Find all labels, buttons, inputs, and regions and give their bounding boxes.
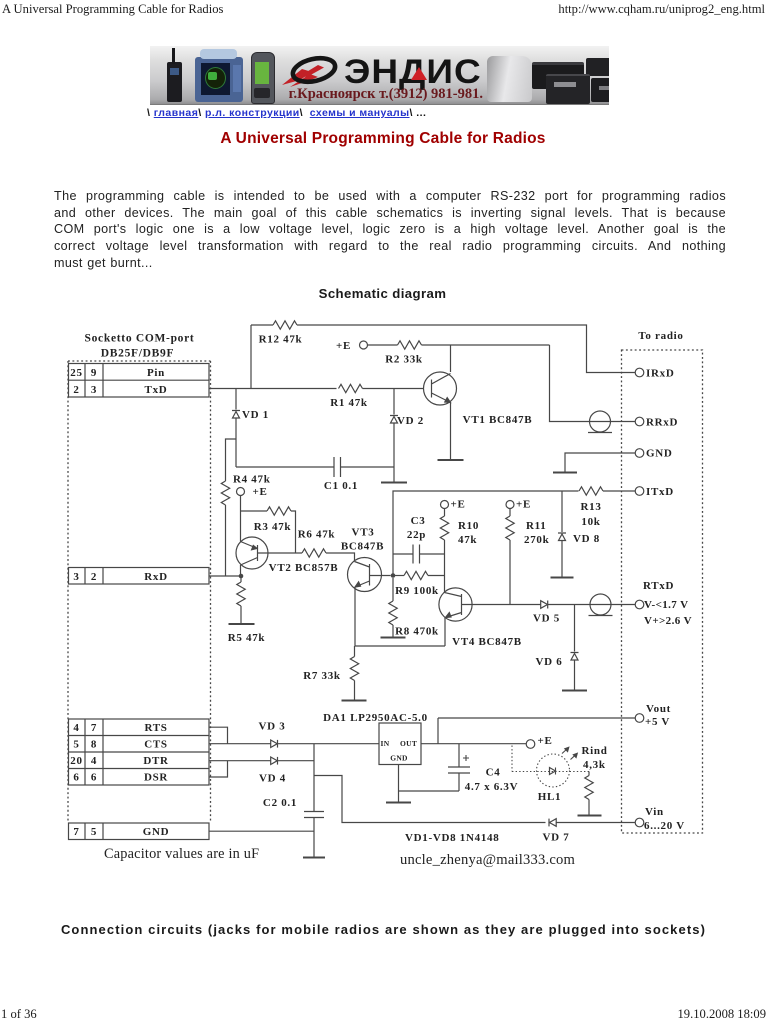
wire VT4 collector (473, 604, 541, 606)
LED HL1 dashed circle (537, 754, 570, 787)
svg-text:25: 25 (70, 367, 82, 379)
wire R5 to ground (240, 606, 242, 624)
svg-text:VT1 BC847B: VT1 BC847B (463, 414, 533, 426)
banner logo ellipse (280, 54, 342, 90)
svg-text:IRxD: IRxD (646, 368, 674, 380)
svg-text:5: 5 (73, 739, 79, 751)
svg-text:Rind: Rind (582, 745, 608, 757)
svg-text:10k: 10k (581, 516, 600, 528)
svg-text:R6 47k: R6 47k (298, 529, 336, 541)
svg-text:R12 47k: R12 47k (259, 334, 303, 346)
resistor R6 (302, 549, 326, 557)
jack RRxD (588, 411, 612, 433)
svg-text:C2 0.1: C2 0.1 (263, 797, 297, 809)
resistor R3 (267, 507, 291, 515)
svg-text:7: 7 (73, 826, 79, 838)
svg-text:IN: IN (381, 739, 390, 748)
capacitor C4 (399, 744, 471, 791)
footer date (677, 1007, 766, 1022)
svg-text:R8 470k: R8 470k (395, 626, 439, 638)
diode VD1 (232, 389, 240, 440)
svg-text:+E: +E (451, 499, 466, 511)
svg-text:+E: +E (516, 499, 531, 511)
wire +E to R2 (368, 344, 398, 346)
pin RRxD (635, 417, 644, 426)
diode VD8 (558, 491, 566, 577)
ground GND pin (553, 472, 577, 474)
svg-text:6: 6 (91, 772, 97, 784)
banner phone line (288, 86, 483, 103)
page header right url (558, 2, 765, 17)
transistor VT1 (424, 372, 457, 405)
wire node to R5 (240, 576, 242, 582)
svg-text:6...20 V: 6...20 V (644, 820, 685, 832)
wire VD7 to Vin pin (556, 822, 635, 824)
ground DA1 (386, 802, 411, 804)
pin IRxD (635, 368, 644, 377)
svg-text:+E: +E (253, 486, 268, 498)
svg-text:47k: 47k (458, 534, 477, 546)
wire R3 to base line (291, 511, 296, 553)
LED HL1 arrows (562, 747, 577, 759)
svg-text:4: 4 (73, 722, 79, 734)
wire TxD from connector (209, 388, 337, 390)
banner logo red triangle in Д (411, 67, 427, 80)
wire RTS bracket to CTS (209, 727, 228, 744)
svg-text:R3 47k: R3 47k (254, 521, 292, 533)
wire VT4 emitter down (444, 618, 446, 647)
svg-text:4: 4 (91, 755, 97, 767)
svg-text:2: 2 (91, 571, 97, 583)
table Pin/TxD rows (69, 364, 210, 398)
banner big logo text (344, 53, 484, 92)
wire VT3 emitter down (354, 587, 356, 646)
banner radar device (195, 57, 243, 102)
regulator DA1 box (379, 723, 421, 765)
wire junction branch to Vin (314, 776, 546, 823)
svg-text:C1 0.1: C1 0.1 (324, 480, 358, 492)
diode VD4 (271, 757, 278, 765)
banner ups tower (487, 56, 532, 102)
svg-text:9: 9 (91, 367, 97, 379)
resistor R2 (398, 341, 422, 349)
COM connector dotted boundary (68, 361, 211, 823)
svg-text:RRxD: RRxD (646, 417, 678, 429)
diode VD5 (541, 601, 635, 609)
svg-text:Vout: Vout (646, 703, 671, 715)
wire DSR bracket to DTR (209, 761, 228, 777)
pin ITxD (635, 487, 644, 496)
wire +E branch to R3 (241, 510, 268, 512)
svg-text:HL1: HL1 (538, 791, 562, 803)
jack RTxD (589, 594, 613, 616)
bottom caption (0, 922, 767, 937)
wire VT1 emitter to ground (450, 403, 452, 460)
transistor VT4 (439, 588, 473, 621)
wire VD1 to C1 (236, 439, 334, 467)
svg-text:R1 47k: R1 47k (330, 397, 368, 409)
SVG PART2 (209, 487, 635, 701)
svg-text:GND: GND (143, 826, 170, 838)
diode VD2 (390, 389, 398, 468)
svg-text:RTxD: RTxD (643, 580, 674, 592)
banner (150, 46, 609, 105)
svg-text:C3: C3 (411, 515, 426, 527)
supply circle +E at R10 (441, 501, 449, 509)
svg-text:R10: R10 (458, 520, 479, 532)
footer page number (1, 1007, 37, 1022)
svg-text:VD 7: VD 7 (543, 832, 570, 844)
capacitor C1 (334, 457, 341, 477)
dotted wire to HL1 (512, 746, 589, 776)
svg-text:20: 20 (70, 755, 82, 767)
svg-text:VD1-VD8 1N4148: VD1-VD8 1N4148 (405, 832, 499, 844)
supply circle +E at R11 (506, 501, 514, 509)
svg-text:R4 47k: R4 47k (233, 474, 271, 486)
svg-text:BC847B: BC847B (341, 541, 384, 553)
wire GND row to C2 leg (209, 830, 314, 832)
svg-text:R13: R13 (580, 501, 601, 513)
svg-text:22p: 22p (407, 529, 426, 541)
svg-text:DSR: DSR (144, 772, 168, 784)
svg-text:CTS: CTS (144, 739, 168, 751)
nav links line (147, 107, 426, 119)
wire VD3 to DA1 IN (278, 743, 380, 745)
svg-text:V-<1.7 V: V-<1.7 V (644, 599, 689, 611)
svg-text:7: 7 (91, 722, 97, 734)
svg-text:VD 1: VD 1 (242, 409, 269, 421)
wire C1 to VD2 leg (341, 466, 395, 468)
wire R12 rail to IRxD (251, 325, 635, 373)
svg-text:2: 2 (73, 384, 79, 396)
pin GND (635, 449, 644, 458)
wire TxD up to R12 rail (250, 325, 252, 389)
svg-text:R11: R11 (526, 520, 546, 532)
ground R8 (381, 637, 406, 639)
wire node up to ITxD line (393, 491, 579, 576)
resistor R11 (506, 509, 514, 605)
wire GND pin to ground (565, 453, 635, 472)
svg-text:GND: GND (390, 754, 408, 763)
diode VD7 (549, 819, 556, 827)
wire VT2 collector to RxD node (240, 565, 242, 576)
ground R5 (229, 623, 255, 625)
svg-text:4,3k: 4,3k (583, 759, 606, 771)
svg-text:4.7 x 6.3V: 4.7 x 6.3V (465, 781, 518, 793)
svg-text:R5 47k: R5 47k (228, 632, 266, 644)
ground R7 (342, 700, 367, 702)
node RxD junction (239, 574, 244, 579)
svg-text:Capacitor values are in uF: Capacitor values are in uF (104, 846, 259, 862)
svg-text:Pin: Pin (147, 367, 165, 379)
wire RxD from connector (209, 575, 241, 577)
svg-text:VT2 BC857B: VT2 BC857B (269, 562, 339, 574)
wire R13 to ITxD pin (603, 490, 635, 492)
svg-text:VD 8: VD 8 (573, 533, 600, 545)
capacitor C2 (304, 812, 324, 818)
svg-text:RTS: RTS (144, 722, 167, 734)
svg-text:VD 2: VD 2 (397, 415, 424, 427)
wire CTS line (209, 743, 271, 745)
pin Vin (635, 818, 644, 827)
resistor R10 (440, 509, 448, 593)
svg-text:VT3: VT3 (352, 527, 375, 539)
ground VD2/C1 (381, 482, 407, 484)
wire R2 to collector rail and RRxD drop (422, 345, 636, 422)
svg-text:270k: 270k (524, 534, 550, 546)
svg-text:6: 6 (73, 772, 79, 784)
svg-text:5: 5 (91, 826, 97, 838)
svg-text:DB25F/DB9F: DB25F/DB9F (101, 348, 174, 360)
ground VD6 (562, 690, 587, 692)
wire R4 to RxD node (225, 505, 227, 576)
wire DTR line (209, 760, 271, 762)
resistor R9 (393, 571, 445, 579)
table RxD row (69, 568, 210, 585)
resistor R13 (579, 487, 603, 495)
svg-text:uncle_zhenya@mail333.com: uncle_zhenya@mail333.com (400, 852, 576, 868)
supply circle +E main (526, 740, 535, 749)
capacitor C3 (393, 545, 445, 564)
resistor R7 (350, 646, 358, 700)
ground C2 (303, 857, 325, 859)
svg-text:R7 33k: R7 33k (303, 670, 341, 682)
pin Vout (635, 714, 644, 723)
wire DA1 GND pin to ground (398, 765, 400, 803)
resistor R8 (389, 578, 397, 637)
pin RTxD (635, 600, 644, 609)
supply circle +E at VT2 (237, 488, 245, 496)
svg-text:3: 3 (73, 571, 79, 583)
LED HL1 symbol (550, 768, 556, 775)
ground Rind (578, 815, 602, 817)
wire VD1 branch to R4 (226, 439, 237, 481)
svg-text:3: 3 (91, 384, 97, 396)
svg-text:VT4 BC847B: VT4 BC847B (452, 636, 522, 648)
wire VD4 to junction (278, 760, 315, 762)
resistor R12 (273, 321, 297, 329)
page title (0, 130, 766, 148)
resistor Rind (585, 772, 593, 816)
intro paragraph (54, 188, 726, 272)
section heading (0, 286, 765, 301)
svg-text:RxD: RxD (144, 571, 168, 583)
svg-text:+5 V: +5 V (645, 716, 670, 728)
svg-text:TxD: TxD (145, 384, 168, 396)
wire VT1 collector (450, 345, 452, 372)
To radio dotted box (622, 350, 703, 833)
svg-text:R2 33k: R2 33k (385, 354, 423, 366)
diode VD3 (271, 740, 278, 748)
wire +E to VT2 emitter (240, 496, 242, 542)
table GND row (69, 823, 210, 840)
wire R1 to VT1 base (363, 388, 425, 390)
table RTS-DSR rows (69, 719, 210, 785)
svg-text:C4: C4 (486, 767, 501, 779)
svg-text:VD 3: VD 3 (259, 721, 286, 733)
banner batteries (532, 62, 584, 89)
diode VD6 (571, 605, 579, 691)
svg-text:GND: GND (646, 448, 673, 460)
wire diode junction down to C2 (313, 744, 315, 811)
page header left (2, 2, 223, 17)
node E supply circle top (360, 341, 368, 349)
wire C2 to ground (313, 818, 315, 858)
ground VT1 (438, 459, 464, 461)
svg-text:+E: +E (538, 735, 553, 747)
svg-text:DA1 LP2950AC-5.0: DA1 LP2950AC-5.0 (323, 712, 428, 724)
wire VD2 to ground (393, 467, 395, 482)
svg-text:To radio: To radio (638, 330, 683, 342)
svg-text:Socketto COM-port: Socketto COM-port (85, 333, 195, 345)
banner gps (251, 52, 275, 104)
svg-text:R9 100k: R9 100k (395, 585, 439, 597)
resistor R4 (221, 481, 229, 505)
wire OUT up to Vout (438, 718, 635, 744)
wire DA1 OUT to +E (421, 743, 526, 745)
svg-text:ITxD: ITxD (646, 486, 674, 498)
svg-text:DTR: DTR (143, 755, 169, 767)
svg-text:+E: +E (336, 340, 351, 352)
wire R6 to VT3 (326, 553, 355, 562)
svg-text:V+>2.6 V: V+>2.6 V (644, 615, 692, 627)
svg-text:Vin: Vin (645, 806, 664, 818)
ground VD8 (551, 577, 574, 579)
wire emitter bus (355, 645, 446, 647)
svg-text:VD 6: VD 6 (536, 656, 563, 668)
node VT3 collector junction (391, 573, 396, 578)
resistor R5 (237, 582, 245, 606)
transistor VT3 (348, 558, 391, 592)
transistor VT2 (236, 537, 268, 569)
wire VT2 base to R6 (268, 552, 302, 554)
svg-text:8: 8 (91, 739, 97, 751)
svg-text:OUT: OUT (400, 739, 417, 748)
resistor R1 (339, 384, 363, 392)
svg-text:VD 4: VD 4 (259, 773, 286, 785)
svg-text:VD 5: VD 5 (533, 613, 560, 625)
banner walkie-talkie (167, 62, 182, 102)
